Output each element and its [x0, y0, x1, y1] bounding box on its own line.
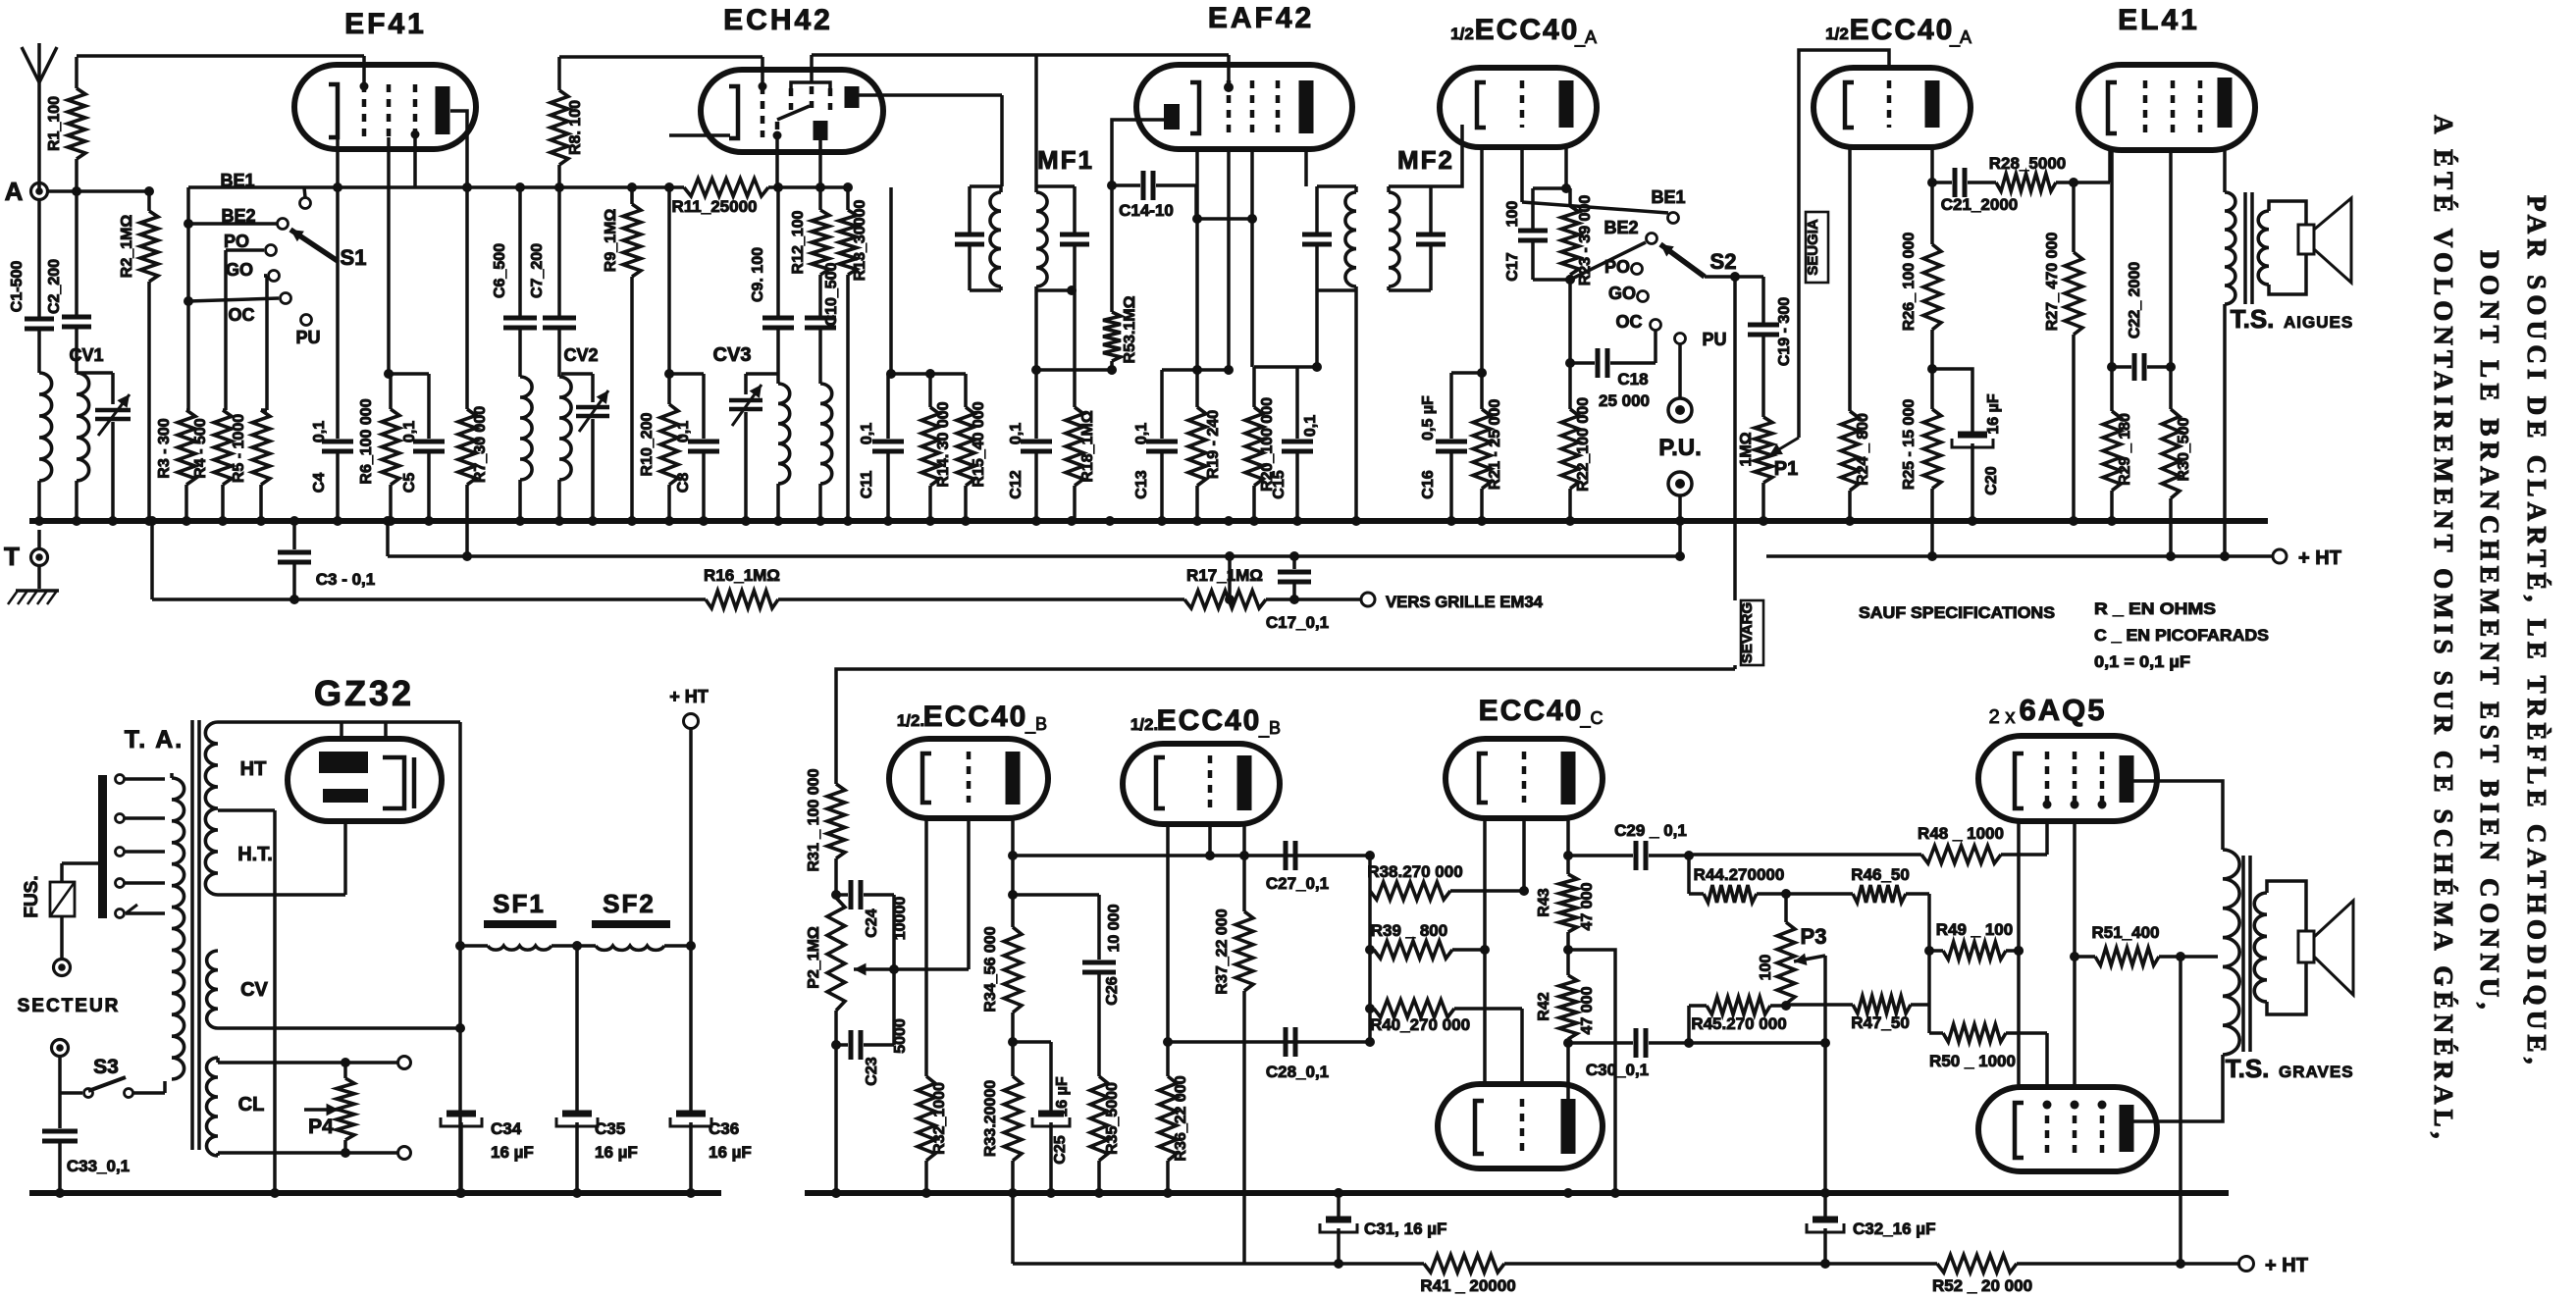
svg-text:C19 - 300: C19 - 300	[1776, 297, 1793, 366]
svg-text:16 µF: 16 µF	[595, 1143, 638, 1162]
svg-text:_A: _A	[1949, 27, 1971, 48]
TA secondary CL	[207, 1058, 265, 1156]
capacitor C29	[1568, 821, 1689, 870]
svg-text:PAR SOUCI DE CLARTÉ, LE T: PAR SOUCI DE CLARTÉ, LE TRÈFLE CATHODIQU…	[2522, 195, 2551, 1065]
wire HT rail	[1766, 554, 2273, 558]
box AIGUES	[1805, 212, 1828, 283]
choke SF1	[484, 920, 556, 950]
wire R48 row	[1689, 853, 1921, 857]
svg-text:C17_0,1: C17_0,1	[1266, 613, 1329, 632]
svg-text:0,1: 0,1	[401, 421, 418, 442]
6AQ5a grid g1	[2043, 752, 2052, 809]
6AQ5a grid g2	[2071, 752, 2079, 809]
svg-text:C _ EN PICOFARADS: C _ EN PICOFARADS	[2094, 626, 2269, 645]
svg-text:16 µF: 16 µF	[709, 1143, 752, 1162]
label GO	[226, 260, 253, 280]
EAF42 cathode	[1190, 82, 1199, 133]
EAF42 anode	[1299, 80, 1314, 133]
svg-text:CV1: CV1	[69, 345, 103, 365]
EL41 grid g2	[2171, 80, 2176, 135]
svg-text:C36: C36	[709, 1119, 739, 1138]
svg-text:R31 _ 100 000: R31 _ 100 000	[806, 768, 822, 871]
wire anode col	[1564, 147, 1568, 188]
svg-text:GO: GO	[226, 260, 253, 280]
wire	[75, 191, 79, 316]
switch S1 contact PO	[226, 245, 277, 256]
TS GRAVES secondary	[2254, 881, 2306, 1014]
6AQ5a grid g3	[2098, 752, 2107, 809]
wire R14 col	[843, 182, 891, 374]
svg-text:R6_100 000: R6_100 000	[358, 398, 375, 484]
wire R48 to grid	[2001, 821, 2047, 855]
wire EF41 pin	[413, 137, 417, 187]
svg-text:P4: P4	[308, 1116, 334, 1138]
capacitor C14	[1112, 171, 1257, 224]
svg-text:_B: _B	[1258, 718, 1281, 739]
svg-text:0,1: 0,1	[675, 421, 692, 442]
resistor R2	[119, 191, 158, 521]
resistor R47	[1786, 996, 1929, 1032]
wire	[744, 412, 748, 521]
wire grid stub B2	[1208, 824, 1212, 856]
choke SF2 label	[603, 889, 656, 918]
wire bottom rail	[1013, 1193, 1424, 1269]
wire row381c	[886, 369, 966, 379]
svg-text:C20: C20	[1983, 466, 2000, 494]
svg-text:AIGUES: AIGUES	[2284, 313, 2353, 332]
wire top ECH42 a	[559, 57, 767, 91]
resistor R13	[839, 187, 868, 521]
svg-text:GZ32: GZ32	[314, 673, 414, 713]
resistor R21	[1473, 147, 1503, 521]
ECH42 anode 2	[814, 121, 828, 140]
tube ECC40B1 label	[897, 701, 1047, 735]
wire	[557, 480, 561, 521]
wire CV2 tap	[561, 372, 593, 376]
wire top ECH42 b	[791, 55, 1036, 88]
svg-text:C25: C25	[1052, 1135, 1069, 1164]
wire AVC drop	[1225, 551, 1235, 599]
svg-text:S1: S1	[341, 245, 367, 270]
svg-text:16 µF: 16 µF	[1054, 1076, 1071, 1116]
choke SF2	[592, 920, 670, 950]
MF2 primary cap	[1302, 186, 1332, 290]
wire anode MF1	[859, 95, 1002, 186]
resistor R30	[2162, 409, 2192, 561]
wire EF41 anode	[450, 111, 467, 409]
resistor R26	[1901, 233, 1941, 369]
svg-text:R43: R43	[1536, 888, 1552, 916]
wire top EF41	[77, 56, 369, 91]
svg-text:H.T.: H.T.	[237, 844, 273, 865]
svg-text:10 000: 10 000	[1106, 904, 1123, 952]
wire	[818, 484, 822, 521]
ECH42 grid g1	[761, 86, 765, 137]
ECC40C2 grid	[1520, 1099, 1525, 1154]
margin text line 3	[2429, 115, 2458, 1140]
svg-text:C1-500: C1-500	[9, 261, 26, 313]
wire AIGUES-P1	[1769, 438, 1799, 455]
svg-text:100: 100	[1504, 201, 1521, 228]
wire GRAVES down	[1733, 665, 1737, 669]
wire anode bottom	[2133, 1055, 2223, 1121]
svg-text:16 µF: 16 µF	[1985, 393, 2002, 434]
svg-text:R25 - 15 000: R25 - 15 000	[1901, 399, 1918, 491]
main ground bus	[29, 518, 2268, 524]
svg-text:1MΩ: 1MΩ	[1738, 432, 1755, 466]
MF2 secondary cap	[1416, 186, 1446, 290]
wire	[37, 481, 41, 521]
wire cath col B2	[1163, 824, 1173, 1076]
capacitor C17	[1504, 188, 1548, 282]
wire row381	[384, 369, 429, 379]
svg-text:SF1: SF1	[493, 889, 546, 918]
svg-text:R39 _ 800: R39 _ 800	[1371, 921, 1447, 940]
coil L2	[77, 373, 89, 481]
switch S2 contact PU	[1675, 334, 1686, 344]
svg-text:_A: _A	[1574, 27, 1597, 48]
capacitor C26	[1082, 904, 1123, 1076]
svg-text:DONT LE BRANCHEMENT EST BI: DONT LE BRANCHEMENT EST BIEN CONNU,	[2475, 250, 2504, 1011]
tube ECC40 C bottom	[1438, 1084, 1603, 1168]
resistor R48	[1918, 824, 2004, 863]
transformer MF2 label	[1397, 145, 1454, 175]
capacitor C33	[42, 1093, 130, 1193]
tube EAF42	[1136, 65, 1352, 149]
wire TS-HT	[2220, 304, 2230, 561]
wire grid BE1	[1522, 147, 1668, 213]
svg-text:C15: C15	[1271, 470, 1288, 498]
wire R3 col	[184, 187, 193, 410]
wire	[1968, 181, 1996, 184]
resistor R7	[458, 406, 489, 561]
capacitor C1	[9, 261, 54, 329]
capacitor C16	[1420, 373, 1482, 521]
wire R10 col	[667, 187, 671, 404]
switch S2 contact GO	[1638, 291, 1649, 302]
svg-text:_C: _C	[1579, 708, 1603, 729]
svg-text:ECC40: ECC40	[1850, 14, 1955, 46]
wire	[111, 422, 115, 521]
svg-text:100: 100	[1758, 955, 1774, 981]
wire	[2017, 1262, 2239, 1266]
EL41 grid g1	[2143, 80, 2148, 135]
svg-text:R7_30 000: R7_30 000	[472, 406, 489, 483]
svg-text:C22_ 2000: C22_ 2000	[2127, 262, 2143, 338]
ECC40A1 grid	[1520, 80, 1525, 128]
svg-text:C13: C13	[1133, 470, 1150, 498]
wire	[75, 327, 79, 373]
wire	[336, 452, 340, 521]
svg-text:47 000: 47 000	[1579, 882, 1596, 930]
choke SF1 label	[493, 889, 546, 918]
tube ECH42	[701, 70, 883, 152]
note c en pf	[2094, 626, 2269, 645]
resistor R27	[2044, 182, 2082, 521]
resistor R20	[1245, 149, 1276, 521]
svg-text:R27_ 470 000: R27_ 470 000	[2044, 233, 2061, 332]
wire CL P4 bottom	[218, 1147, 411, 1160]
svg-text:SEUGIA: SEUGIA	[1805, 219, 1821, 276]
resistor R10	[639, 404, 678, 521]
wire MF2 to grid	[1431, 125, 1462, 186]
switch S2 arm	[1660, 244, 1736, 277]
wire cath col	[2107, 150, 2117, 411]
svg-text:R14. 30 000: R14. 30 000	[935, 401, 952, 487]
TS GRAVES core	[2243, 856, 2250, 1052]
svg-text:R30_500: R30_500	[2176, 417, 2192, 481]
transformer TS GRAVES primary	[2223, 850, 2239, 1055]
coil L5	[778, 384, 790, 484]
svg-text:R53.1MΩ: R53.1MΩ	[1122, 295, 1138, 363]
svg-text:R37_22 000: R37_22 000	[1214, 909, 1231, 994]
capacitor C19	[1748, 277, 1793, 417]
wire y377b	[1162, 368, 1229, 372]
wire y192	[1533, 183, 1571, 193]
resistor R49	[1929, 920, 2024, 960]
potentiometer P2	[806, 890, 845, 1198]
wire CV1 tap	[78, 373, 113, 404]
capacitor C8	[675, 421, 719, 521]
ECC40C1 grid	[1522, 752, 1527, 803]
ECC40A2 anode	[1925, 80, 1940, 128]
ECC40A1 anode	[1559, 80, 1574, 128]
mains selector bar	[98, 775, 107, 918]
wire	[289, 564, 299, 604]
svg-text:R8. 100: R8. 100	[567, 100, 584, 155]
resistor R22	[1561, 358, 1592, 521]
capacitor C9	[750, 247, 794, 328]
MF1 primary cap	[955, 186, 984, 290]
svg-text:C30_0,1: C30_0,1	[1586, 1061, 1649, 1079]
wire	[778, 595, 1235, 604]
margin text line 2	[2475, 250, 2504, 1011]
wire screen col 6AQ5	[2070, 821, 2079, 1087]
svg-text:R28_5000: R28_5000	[1989, 154, 2066, 173]
tube ECC40B2 label	[1130, 704, 1281, 739]
svg-text:+ HT: + HT	[2265, 1255, 2308, 1276]
resistor R44	[1689, 865, 1791, 903]
variable capacitor CV1	[69, 345, 131, 436]
wire grid col	[1224, 149, 1234, 375]
wire	[518, 480, 522, 521]
label BE1 b	[1651, 187, 1685, 207]
svg-text:T.S.: T.S.	[2226, 1054, 2270, 1083]
switch S1 contact BE2	[188, 219, 289, 230]
wire HT bottom	[218, 893, 345, 897]
svg-text:0,5 µF: 0,5 µF	[1420, 395, 1437, 441]
capacitor C17b	[1266, 551, 1329, 632]
wire P2 wiper	[854, 963, 899, 976]
wire cath col	[1192, 149, 1202, 375]
tube 6AQ5 label	[1989, 693, 2107, 728]
label TS AIGUES	[2231, 304, 2354, 334]
svg-text:0,1: 0,1	[1302, 415, 1319, 437]
wire R5 col	[264, 276, 267, 410]
resistor R43	[1536, 874, 1596, 950]
svg-text:PU: PU	[1702, 330, 1726, 349]
svg-text:R38.270 000: R38.270 000	[1367, 862, 1462, 881]
label PO	[224, 232, 249, 251]
svg-text:C32_16 µF: C32_16 µF	[1853, 1220, 1935, 1238]
svg-text:C21_2000: C21_2000	[1941, 195, 2018, 214]
MF1 secondary coil	[1036, 186, 1075, 290]
capacitor C22	[2112, 262, 2171, 381]
svg-text:C33_0,1: C33_0,1	[67, 1157, 130, 1175]
wire	[1266, 597, 1361, 601]
terminal A	[5, 177, 48, 206]
svg-text:BE2: BE2	[1603, 218, 1638, 237]
wire C9 col	[777, 135, 778, 316]
svg-text:OC: OC	[229, 305, 255, 325]
wire grid top C	[1522, 818, 1526, 891]
EL41 cathode	[2108, 82, 2117, 133]
svg-text:C31, 16 µF: C31, 16 µF	[1364, 1220, 1446, 1238]
svg-text:R1_100: R1_100	[46, 96, 63, 151]
tube ECC40A1 label	[1450, 14, 1597, 48]
resistor R46	[1786, 865, 1929, 903]
terminal vers grille	[1361, 593, 1544, 611]
resistor R39	[1365, 921, 1490, 959]
label BE2 b	[1603, 218, 1638, 237]
svg-text:CL: CL	[238, 1094, 265, 1116]
capacitor C4	[311, 421, 353, 493]
svg-text:25 000: 25 000	[1599, 391, 1650, 410]
svg-text:R50 _ 1000: R50 _ 1000	[1929, 1052, 2016, 1070]
resistor R38	[1367, 862, 1529, 900]
resistor R41	[1420, 1255, 1515, 1295]
svg-text:T. A.: T. A.	[125, 726, 184, 753]
svg-text:C23: C23	[864, 1057, 880, 1085]
wire	[557, 329, 561, 377]
terminal +HT bottom	[2239, 1255, 2308, 1276]
wire R45 drop	[1684, 1006, 1694, 1048]
6AQ5b grid g1	[2043, 1101, 2052, 1159]
wire MF1 bottom	[1034, 290, 1038, 370]
svg-text:ECC40: ECC40	[1475, 14, 1580, 46]
svg-text:R13_30000: R13_30000	[852, 200, 868, 282]
wire	[460, 944, 488, 948]
ECC40B2 grid	[1208, 755, 1213, 808]
wire R51-HT	[2176, 957, 2185, 1269]
svg-text:R9_1MΩ: R9_1MΩ	[603, 209, 619, 273]
svg-text:P1: P1	[1774, 458, 1798, 480]
svg-text:R34_56 000: R34_56 000	[982, 926, 999, 1012]
wire GZ32 filament	[343, 821, 347, 895]
wire C30-P3 col	[1689, 1038, 1830, 1048]
label PU b	[1702, 330, 1726, 349]
6AQ5b anode	[2120, 1105, 2134, 1152]
tube ECH42 label	[723, 4, 833, 36]
resistor R45	[1689, 997, 1791, 1033]
svg-text:R29 _ 180: R29 _ 180	[2117, 413, 2133, 486]
svg-text:S2: S2	[1710, 249, 1737, 274]
svg-text:R19 - 240: R19 - 240	[1205, 410, 1222, 479]
capacitor C35	[556, 946, 638, 1198]
capacitor C10	[805, 262, 840, 328]
EAF42 grid g3	[1276, 80, 1281, 133]
bottom bus right	[805, 1188, 2229, 1198]
TA core	[192, 720, 199, 1150]
svg-text:CV3: CV3	[713, 344, 752, 366]
selector tap 2	[116, 814, 166, 823]
svg-text:SF2: SF2	[603, 889, 656, 918]
label P.U.	[1658, 435, 1702, 461]
svg-text:16 µF: 16 µF	[491, 1143, 534, 1162]
switch S1 contact OC	[188, 293, 291, 304]
wire anode row y872	[1013, 851, 1375, 860]
tube ECC40A2 label	[1825, 14, 1971, 48]
tube ECC40 C top	[1446, 739, 1603, 818]
wire GZ32 anode taps	[342, 723, 386, 739]
svg-text:C12: C12	[1008, 470, 1025, 498]
switch S2 contact PO	[1632, 264, 1643, 275]
wire EF41 g2	[387, 137, 391, 374]
resistor R9	[603, 187, 641, 521]
terminal +HT left	[669, 687, 709, 729]
svg-text:C6_500: C6_500	[492, 243, 508, 298]
coil L6	[820, 384, 832, 484]
resistor R3	[156, 410, 195, 521]
tube GZ32 label	[314, 673, 414, 713]
resistor R36	[1159, 1075, 1189, 1193]
label PU	[295, 328, 320, 347]
EAF42 diode anode	[1164, 104, 1180, 130]
ECC40A2 cathode	[1845, 82, 1854, 128]
resistor R18	[1066, 290, 1096, 521]
resistor R11	[672, 179, 768, 216]
wire HT top	[218, 720, 460, 724]
tube ECC40 A1	[1440, 68, 1597, 147]
tube EL41 label	[2118, 4, 2200, 36]
tube EAF42 label	[1208, 2, 1314, 34]
selector tap 1	[116, 775, 166, 784]
capacitor C23	[836, 1018, 909, 1086]
wire	[818, 329, 822, 384]
wire AVC	[147, 516, 157, 599]
svg-text:T.S.: T.S.	[2231, 304, 2275, 334]
wire coupling col	[1368, 856, 1372, 1042]
terminal secteur 2	[52, 1040, 69, 1057]
wire ECH42 cath	[669, 133, 730, 137]
capacitor C20	[1952, 393, 2002, 521]
wire CV bottom	[218, 1023, 465, 1033]
ECC40C2 cathode	[1475, 1101, 1484, 1154]
EAF42 grid g2	[1250, 80, 1255, 133]
switch S1 contact PU	[301, 315, 312, 326]
wire anode top	[2133, 781, 2223, 850]
svg-text:T: T	[4, 542, 20, 571]
svg-text:C29 _ 0,1: C29 _ 0,1	[1614, 821, 1687, 840]
capacitor C27	[1266, 841, 1329, 893]
6AQ5b grid g2	[2071, 1101, 2079, 1159]
ECC40A2 grid	[1887, 80, 1892, 128]
wire top EAF42	[1036, 55, 1234, 92]
resistor R32	[918, 818, 948, 1193]
svg-text:C16: C16	[1420, 470, 1437, 498]
note 01	[2094, 652, 2190, 671]
svg-text:SECTEUR: SECTEUR	[18, 996, 121, 1016]
resistor R37	[1214, 824, 1253, 1264]
ECC40A1 cathode	[1477, 82, 1486, 128]
svg-text:R45.270 000: R45.270 000	[1691, 1014, 1786, 1033]
svg-text:C5: C5	[401, 473, 418, 493]
svg-text:R33.20000: R33.20000	[982, 1080, 999, 1157]
svg-text:C4: C4	[311, 473, 328, 493]
svg-text:C2_200: C2_200	[46, 259, 63, 314]
svg-text:C3 - 0,1: C3 - 0,1	[316, 570, 375, 589]
svg-text:0,1: 0,1	[859, 423, 875, 444]
